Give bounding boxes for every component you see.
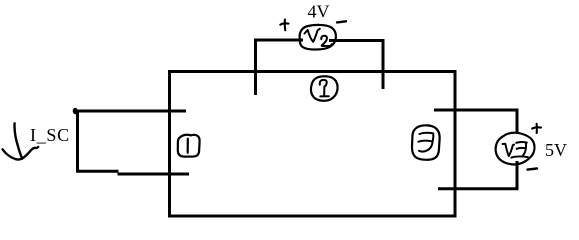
wire top branch left horizontal bbox=[254, 39, 303, 42]
wire right branch top bbox=[434, 109, 517, 112]
minus sign of V3 bbox=[528, 169, 538, 170]
node 2 circle bbox=[311, 76, 338, 101]
voltage source V3 handwritten label V bbox=[503, 144, 514, 156]
wire left branch bottom segment 1 bbox=[76, 170, 119, 173]
I_SC arrow main stroke bbox=[15, 123, 23, 158]
minus sign of V2 bbox=[337, 21, 346, 22]
wire right branch vertical lower stub bbox=[516, 161, 519, 189]
svg-text:4V: 4V bbox=[308, 2, 330, 22]
wire left branch left vertical bbox=[76, 110, 79, 171]
I_SC arrowhead right wing with hook bbox=[22, 147, 38, 159]
node 1 handwritten digit bbox=[187, 139, 189, 153]
voltmeter V2 handwritten label subscript 2 bbox=[321, 36, 332, 46]
I_SC arrowhead left wing bbox=[3, 149, 23, 159]
wire left branch top bbox=[74, 110, 186, 113]
wire main loop box bbox=[170, 72, 456, 217]
plus sign of V2 bbox=[280, 20, 288, 31]
node 3 circle bbox=[412, 125, 440, 159]
wire top branch right vertical bbox=[382, 40, 385, 89]
junction dot left branch bbox=[73, 108, 78, 114]
wire top branch right horizontal bbox=[329, 39, 385, 42]
wire left branch bottom segment 2 bbox=[118, 173, 190, 176]
wire right branch vertical upper stub bbox=[516, 109, 519, 134]
wire right branch bottom bbox=[438, 187, 518, 190]
node 1 rounded box bbox=[178, 135, 200, 157]
node 3 handwritten digit bbox=[418, 133, 433, 152]
node 2 handwritten digit bbox=[320, 80, 329, 97]
voltmeter V2 bubble bbox=[300, 25, 336, 50]
voltage source V3 handwritten label 3 bbox=[511, 142, 528, 158]
voltmeter V2 handwritten label V bbox=[305, 29, 320, 42]
wire top branch left vertical bbox=[254, 40, 257, 95]
svg-text:I_SC: I_SC bbox=[30, 125, 70, 145]
plus sign of V3 bbox=[532, 124, 541, 133]
svg-text:5V: 5V bbox=[545, 140, 567, 160]
voltage source V3 bubble bbox=[496, 133, 535, 165]
